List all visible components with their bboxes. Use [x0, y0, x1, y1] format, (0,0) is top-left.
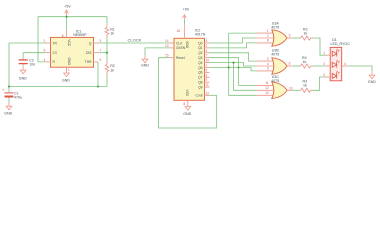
svg-text:Q6: Q6: [198, 71, 203, 75]
resistor R2: [105, 61, 109, 76]
resistor R1: [105, 24, 109, 39]
svg-text:5: 5: [267, 67, 269, 71]
svg-text:1: 1: [68, 68, 70, 72]
node Q5/V3 crossing blob: [238, 67, 240, 69]
svg-text:10n: 10n: [29, 62, 35, 66]
svg-text:2: 2: [44, 39, 46, 43]
svg-text:Q1: Q1: [198, 46, 203, 50]
svg-text:7: 7: [206, 54, 208, 58]
wire gate A output to resistor: [292, 38, 325, 90]
pin stubs D1: [326, 55, 348, 77]
svg-text:9: 9: [289, 34, 291, 38]
svg-text:13: 13: [265, 91, 269, 95]
svg-text:4: 4: [267, 62, 269, 66]
svg-text:CLOCK: CLOCK: [128, 38, 142, 43]
svg-text:THR: THR: [85, 60, 92, 64]
svg-text:8: 8: [267, 39, 269, 43]
svg-text:8: 8: [183, 102, 185, 106]
svg-text:11: 11: [206, 83, 210, 87]
svg-text:8: 8: [62, 34, 64, 38]
svg-text:LED_RYGC: LED_RYGC: [331, 42, 351, 46]
svg-text:12: 12: [265, 86, 269, 90]
ground GND (under C2): [20, 67, 26, 74]
node Q4/V2 junction: [232, 62, 234, 64]
svg-text:3: 3: [206, 39, 208, 43]
svg-text:+5V: +5V: [64, 5, 71, 9]
svg-text:13: 13: [165, 44, 169, 48]
svg-text:Reset: Reset: [176, 56, 185, 60]
ground GND (under IC1): [64, 73, 70, 77]
LED red symbol: [332, 49, 339, 57]
svg-text:4017N: 4017N: [195, 32, 206, 36]
svg-text:10: 10: [206, 59, 210, 63]
svg-text:9: 9: [206, 78, 208, 82]
svg-text:16: 16: [177, 29, 181, 33]
op-amp U3C or-gate 4075: [256, 75, 292, 99]
resistor R2 (gate A): [301, 36, 312, 40]
wire RESET loop: [159, 58, 217, 128]
svg-text:Q2: Q2: [198, 51, 203, 55]
svg-text:VSS: VSS: [185, 90, 189, 97]
svg-text:7: 7: [100, 49, 102, 53]
svg-text:5: 5: [206, 68, 208, 72]
wire D1 common to ground: [347, 66, 372, 72]
svg-text:4075: 4075: [271, 79, 279, 83]
svg-text:2: 2: [323, 62, 325, 66]
op IC1 NE555P timer box: [51, 37, 94, 67]
svg-text:11: 11: [265, 81, 269, 85]
svg-text:1: 1: [267, 29, 269, 33]
svg-text:6: 6: [289, 62, 291, 66]
svg-text:NE555P: NE555P: [73, 33, 87, 37]
svg-text:Q5: Q5: [198, 66, 203, 70]
svg-text:Q8: Q8: [198, 81, 203, 85]
svg-text:VDD: VDD: [185, 41, 189, 49]
junction node C1/bottom wire: [8, 85, 10, 87]
svg-text:GND: GND: [4, 111, 12, 115]
ground GND (CKEN): [142, 56, 148, 63]
svg-text:GND: GND: [62, 79, 70, 83]
resistor R4 (gate B): [301, 64, 312, 68]
svg-text:Q: Q: [89, 41, 92, 45]
supply +5V symbol (4017): [183, 15, 187, 33]
svg-text:14: 14: [165, 39, 169, 43]
svg-text:1k: 1k: [304, 32, 308, 36]
node Q5/V1 junction: [228, 66, 230, 68]
diode D1 LED_RYGC module box: [330, 47, 342, 80]
svg-text:2: 2: [206, 44, 208, 48]
op IC2 4017N counter box: [174, 38, 205, 100]
svg-text:470u: 470u: [14, 95, 22, 99]
svg-text:CLK: CLK: [176, 41, 183, 45]
svg-text:1k: 1k: [110, 68, 114, 72]
svg-text:12: 12: [206, 91, 210, 95]
supply +5V symbol (left): [65, 10, 69, 17]
svg-text:1k: 1k: [110, 31, 114, 35]
svg-text:1k: 1k: [303, 84, 307, 88]
svg-text:GND: GND: [19, 77, 27, 81]
pin stubs IC1: [46, 31, 99, 74]
svg-text:GND: GND: [368, 80, 376, 84]
svg-text:4075: 4075: [271, 25, 279, 29]
svg-text:VCC: VCC: [67, 39, 71, 47]
svg-text:3: 3: [100, 39, 102, 43]
svg-text:Q4: Q4: [198, 61, 203, 65]
op-amp U3B or-gate 4075: [256, 48, 292, 74]
svg-text:5: 5: [44, 49, 46, 53]
wire +5V rail top: [9, 17, 174, 103]
svg-text:Q7: Q7: [198, 76, 203, 80]
ground GND (under IC2): [185, 107, 191, 111]
junction node DIS/R1/R2: [106, 52, 108, 54]
svg-text:GND: GND: [141, 64, 149, 68]
LED green symbol: [332, 71, 339, 79]
junction node rail/VCC: [65, 16, 67, 18]
svg-text:6: 6: [100, 58, 102, 62]
svg-text:Q0: Q0: [198, 41, 203, 45]
op-amp U3A or-gate 4075: [256, 21, 292, 46]
resistor R3 (gate C): [301, 88, 312, 92]
svg-text:TR: TR: [53, 41, 58, 45]
svg-text:6: 6: [206, 73, 208, 77]
junction node THR/bottom wire: [97, 85, 99, 87]
ground GND (D1): [369, 72, 375, 79]
svg-text:10: 10: [289, 86, 293, 90]
capacitor C2: [19, 60, 28, 64]
svg-text:GND: GND: [67, 58, 71, 66]
svg-text:CKEN: CKEN: [176, 46, 186, 50]
svg-text:3: 3: [323, 73, 325, 77]
svg-text:3: 3: [267, 57, 269, 61]
svg-text:4: 4: [206, 49, 208, 53]
svg-text:4: 4: [344, 62, 346, 66]
svg-text:15: 15: [165, 54, 169, 58]
svg-text:+5V: +5V: [183, 8, 190, 12]
svg-text:1: 1: [206, 64, 208, 68]
svg-text:4075: 4075: [271, 52, 279, 56]
pin stubs IC2: [169, 32, 210, 106]
svg-text:CV: CV: [53, 51, 58, 55]
wire CKEN to ground: [145, 48, 169, 56]
ground GND (under C1): [6, 103, 12, 110]
svg-text:4: 4: [44, 58, 46, 62]
svg-text:Cout: Cout: [196, 94, 203, 98]
svg-text:1k: 1k: [303, 60, 307, 64]
LED yellow symbol: [332, 60, 339, 68]
svg-text:2: 2: [267, 34, 269, 38]
svg-text:GND: GND: [183, 112, 191, 116]
svg-text:Q9: Q9: [198, 85, 203, 89]
svg-text:1: 1: [323, 51, 325, 55]
wire Q0 to gate A pin 2: [210, 33, 257, 95]
svg-text:DIS: DIS: [86, 51, 92, 55]
svg-text:Q3: Q3: [198, 56, 203, 60]
